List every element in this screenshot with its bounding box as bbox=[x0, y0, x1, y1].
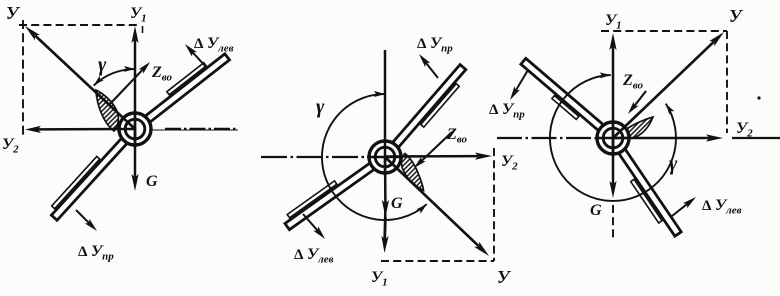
vector Y2 (left) bbox=[38, 128, 135, 131]
vector Y1 (down) bbox=[384, 217, 387, 239]
svg-text:Δ: Δ bbox=[489, 102, 499, 118]
vector Y2 (right) bbox=[385, 155, 478, 158]
arrow dY_lev bbox=[672, 204, 687, 216]
right aileron tab bbox=[421, 84, 459, 127]
axis dash-dot left bbox=[497, 137, 595, 139]
vector Z_vo bbox=[634, 91, 646, 106]
dashed projection lines bbox=[493, 148, 495, 261]
svg-text:Δ: Δ bbox=[194, 36, 204, 52]
fuselage cross-section bbox=[597, 122, 629, 154]
dashed vertical below G bbox=[612, 205, 614, 240]
vector Z_vo bbox=[421, 132, 452, 161]
vector Y1 (up) bbox=[612, 47, 615, 156]
axis dash-dot left bbox=[261, 156, 367, 158]
left aileron tab bbox=[631, 179, 662, 223]
right aileron tab bbox=[167, 63, 206, 95]
right aileron tab bbox=[552, 96, 579, 120]
angle arc gamma bbox=[550, 75, 676, 201]
arrow dY_pr bbox=[76, 210, 89, 223]
vector G (down) bbox=[612, 138, 615, 184]
dashed projection lines bbox=[19, 24, 141, 26]
svg-text:γ: γ bbox=[98, 54, 107, 76]
vector Y1 (up) bbox=[134, 40, 137, 147]
axis dash-dot right bbox=[150, 129, 238, 131]
vertical tail fin (hatched) bbox=[96, 90, 118, 131]
wing lower-left half bbox=[285, 157, 382, 229]
svg-text:G: G bbox=[146, 173, 158, 190]
axis dash-dot right segment bbox=[732, 137, 780, 139]
vertical tail fin (hatched, inverted) bbox=[401, 154, 423, 191]
left aileron tab bbox=[52, 156, 100, 208]
vector Y (lift) bbox=[35, 36, 135, 129]
svg-text:γ: γ bbox=[316, 96, 325, 118]
wing lower-left half bbox=[51, 131, 133, 220]
speck dot bbox=[757, 96, 760, 99]
svg-text:Δ: Δ bbox=[78, 244, 88, 260]
fuselage cross-section bbox=[369, 141, 401, 173]
dash hook bbox=[142, 26, 144, 33]
angle arc gamma bbox=[322, 94, 427, 220]
wing upper-left half bbox=[521, 58, 611, 137]
svg-text:G: G bbox=[391, 195, 403, 212]
left aileron tab bbox=[287, 181, 337, 218]
svg-text:γ: γ bbox=[669, 153, 678, 175]
arrow dY_pr bbox=[426, 63, 438, 78]
angle arc gamma bbox=[94, 69, 135, 86]
vector G (down) bbox=[134, 129, 137, 177]
vector Y (lift, inverted) bbox=[385, 157, 479, 246]
dashed projection lines bbox=[601, 30, 727, 32]
vector Y2 (right) bbox=[613, 137, 709, 140]
fuselage cross-section bbox=[119, 113, 151, 145]
wing upper-right half bbox=[386, 65, 466, 155]
vector Y (lift) bbox=[613, 42, 714, 138]
svg-text:G: G bbox=[590, 202, 602, 219]
arrow dY_pr bbox=[516, 70, 528, 91]
arrow dY_lev bbox=[192, 52, 206, 67]
svg-text:Δ: Δ bbox=[417, 36, 427, 52]
vector Z_vo bbox=[109, 69, 143, 105]
body vertical reference line bbox=[384, 50, 387, 139]
svg-text:Δ: Δ bbox=[702, 198, 712, 214]
svg-text:Δ: Δ bbox=[294, 247, 304, 263]
wing upper-right half bbox=[137, 54, 229, 128]
vector G (down) bbox=[384, 157, 387, 203]
vertical tail fin (hatched) bbox=[620, 117, 653, 139]
wing lower-right half bbox=[613, 141, 681, 236]
arrow dY_lev bbox=[303, 214, 318, 231]
